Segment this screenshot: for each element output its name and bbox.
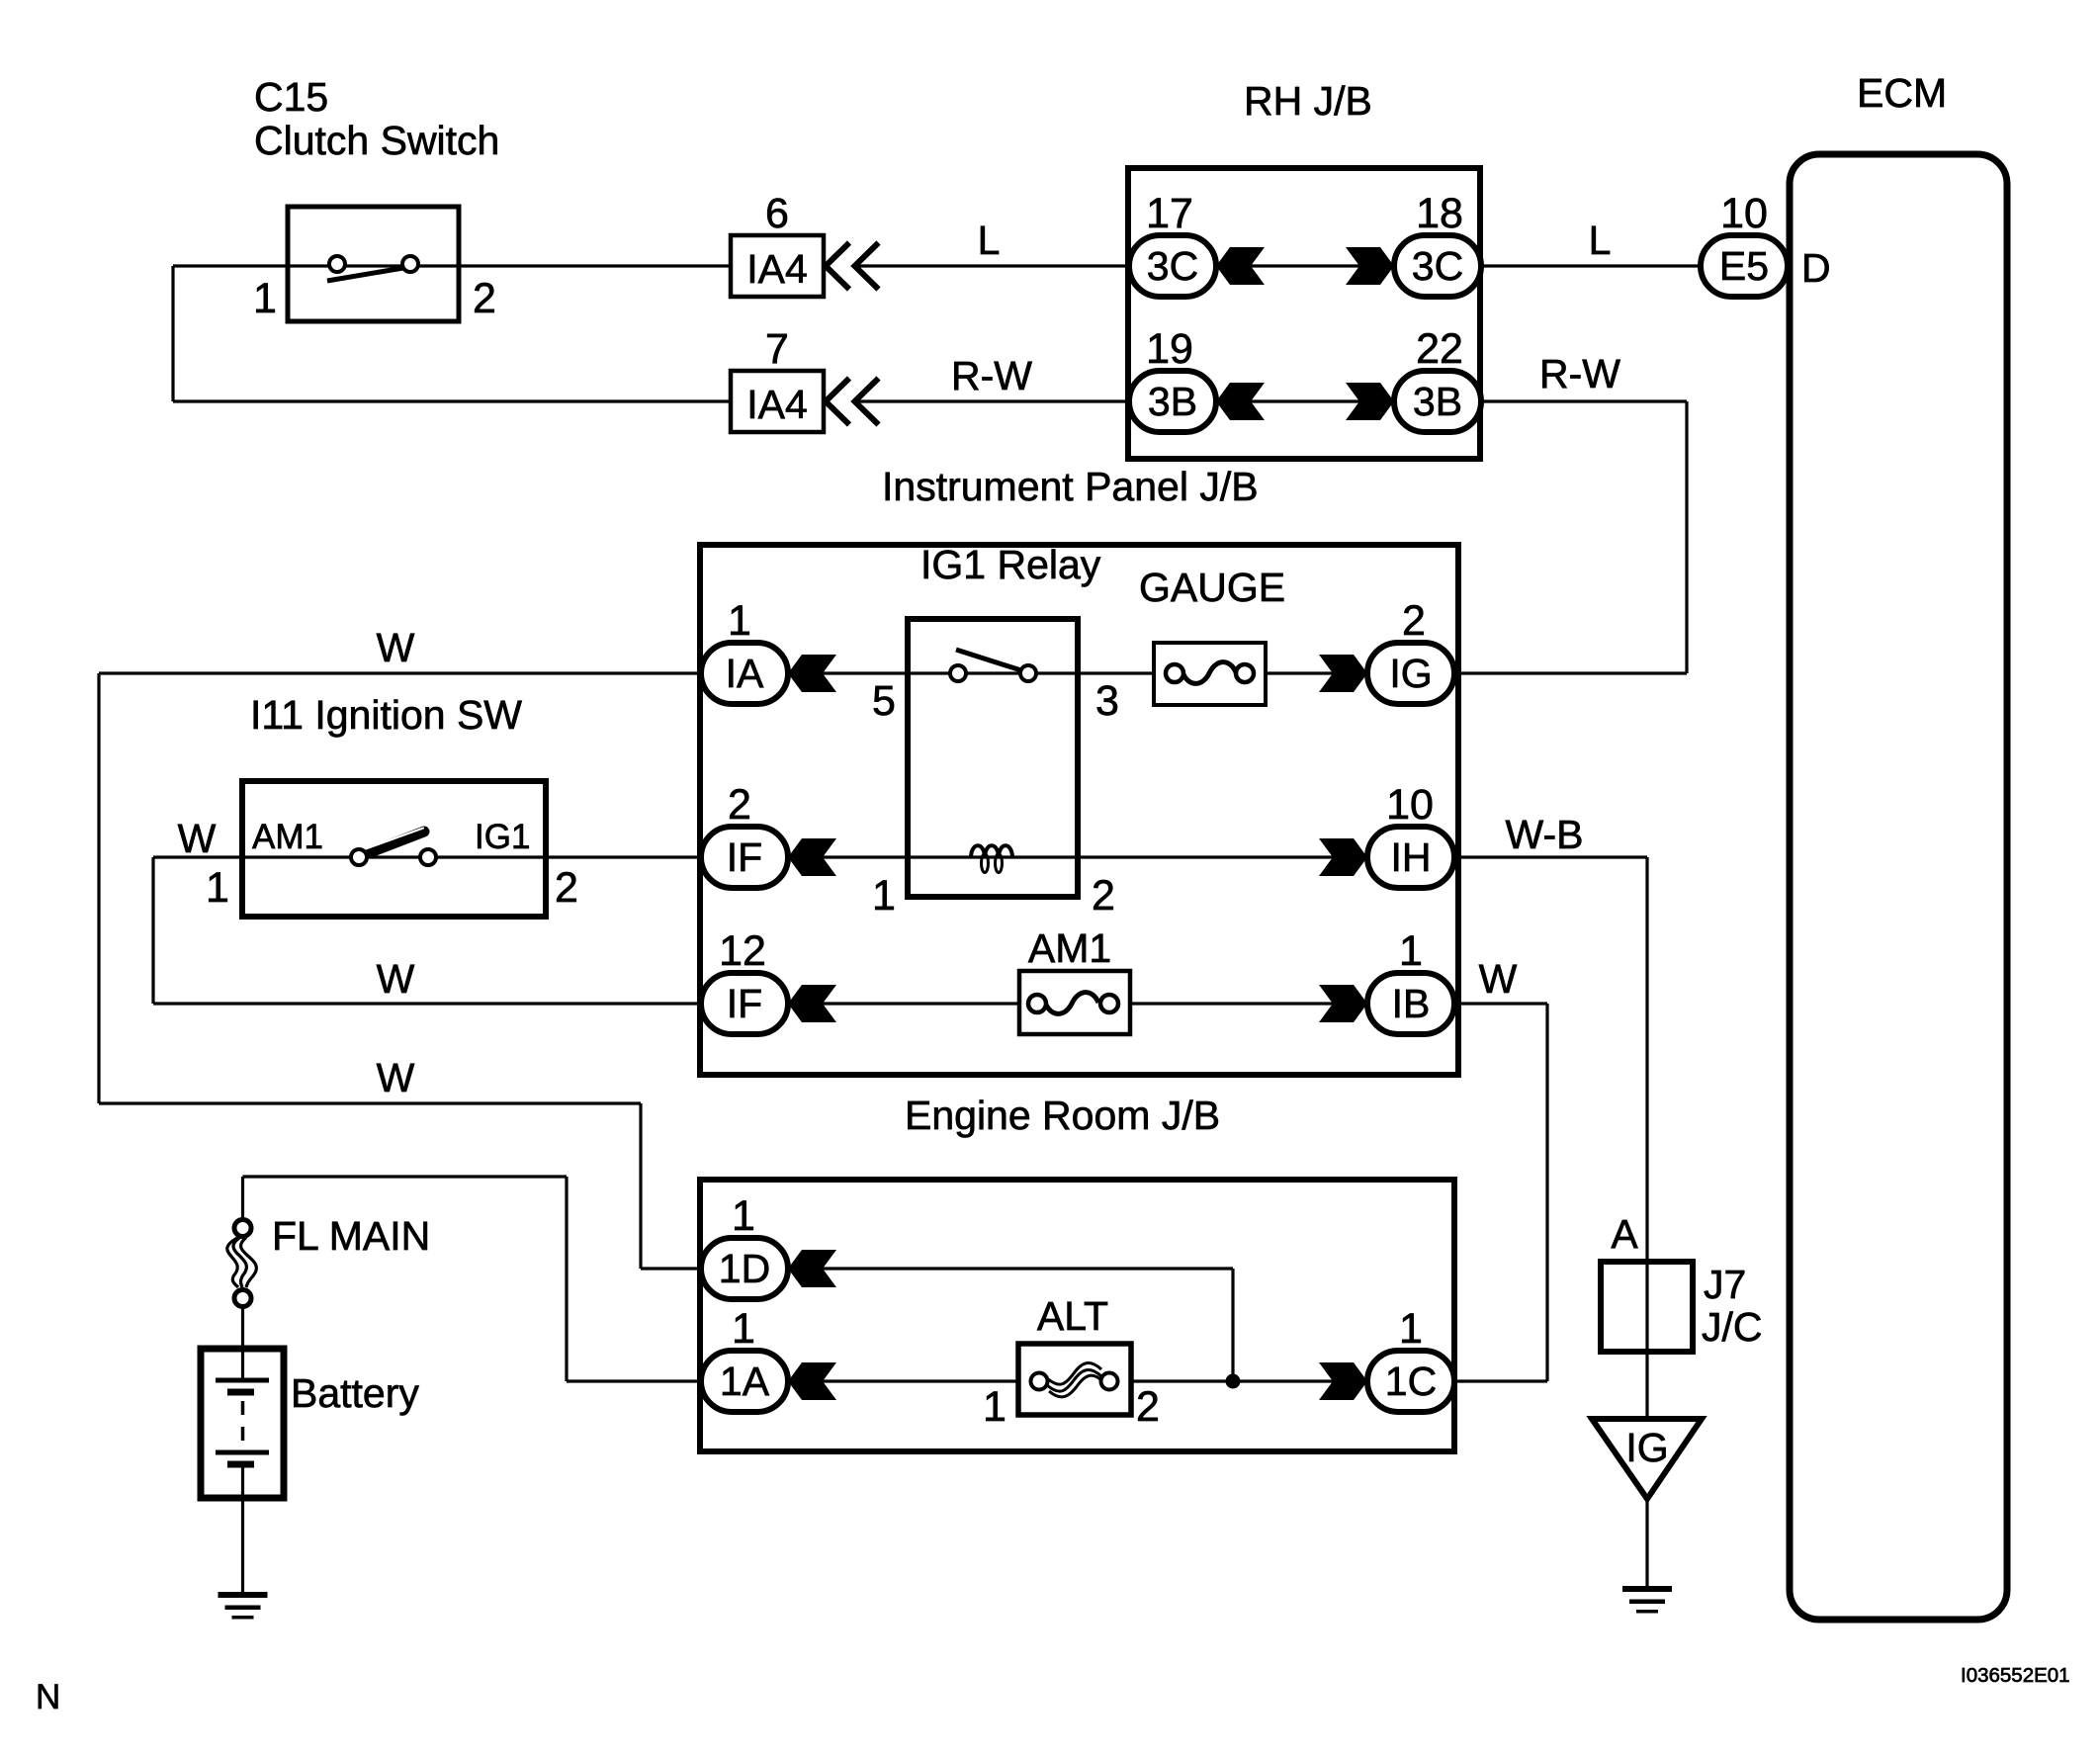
J7 J/C box [1601, 1262, 1693, 1352]
arrow left at IF-12 [788, 985, 836, 1022]
wire J7 to IG triangle [1645, 1352, 1648, 1419]
ALT fuse terminal 2 [1101, 1373, 1118, 1390]
svg-text:RH J/B: RH J/B [1244, 78, 1372, 124]
svg-text:3C: 3C [1147, 243, 1198, 289]
svg-text:18: 18 [1416, 190, 1463, 237]
wire relay pin2 to IH oval [1078, 855, 1367, 858]
svg-text:IG: IG [1389, 651, 1432, 696]
arrow right RH J/B row L [1346, 247, 1394, 285]
ignition switch I11 box [242, 781, 546, 917]
svg-text:L: L [978, 218, 1001, 263]
svg-text:1: 1 [732, 1192, 755, 1240]
arrow left at IF-2 [788, 838, 836, 876]
wire 3C-18 to ECM E5 (L) [1481, 264, 1703, 267]
svg-text:3B: 3B [1148, 379, 1197, 424]
battery box [201, 1349, 284, 1498]
IA4 connector box 6 [731, 235, 824, 297]
svg-text:IG1: IG1 [475, 818, 530, 856]
wire battery to ground [241, 1498, 244, 1593]
svg-text:IF: IF [727, 834, 762, 880]
junction dot [1226, 1374, 1241, 1389]
svg-text:17: 17 [1146, 190, 1193, 237]
svg-text:1: 1 [253, 275, 277, 322]
svg-text:1A: 1A [720, 1359, 770, 1404]
svg-text:3: 3 [1095, 677, 1119, 725]
svg-text:2: 2 [1092, 872, 1115, 920]
svg-text:ECM: ECM [1857, 70, 1947, 116]
svg-text:2: 2 [1136, 1383, 1160, 1431]
arrow right at 1C [1319, 1362, 1367, 1400]
svg-text:1: 1 [206, 864, 229, 912]
ignition switch contact AM1 [351, 849, 367, 865]
wire AM1 fuse to IB oval [1130, 1002, 1367, 1005]
IG1 relay box [908, 619, 1078, 897]
wire clutch switch pin2 to IA4-6 (L) [173, 264, 731, 267]
svg-text:IA4: IA4 [746, 382, 808, 427]
svg-text:AM1: AM1 [1028, 925, 1111, 971]
wire IF-2 oval to relay pin1 [788, 855, 908, 858]
svg-text:1: 1 [872, 872, 896, 920]
svg-text:IG1 Relay: IG1 Relay [920, 542, 1101, 587]
arrow right at IH [1319, 838, 1367, 876]
connector IG pin2 [1367, 643, 1454, 704]
svg-text:2: 2 [473, 275, 496, 322]
svg-text:R-W: R-W [951, 353, 1032, 398]
arrow left at 1A [788, 1362, 836, 1400]
wire FL MAIN to battery box [241, 1306, 244, 1349]
arrow left RH J/B row L [1216, 247, 1265, 285]
svg-text:IB: IB [1392, 981, 1431, 1026]
ignition switch blade [360, 832, 424, 856]
svg-text:A: A [1611, 1211, 1638, 1257]
svg-text:AM1: AM1 [252, 818, 323, 856]
svg-text:N: N [36, 1678, 60, 1716]
Instrument Panel J/B box [700, 545, 1458, 1075]
AM1 fuse box [1019, 971, 1130, 1034]
svg-text:12: 12 [719, 927, 766, 975]
J7 J/C internal wire [1645, 1262, 1648, 1352]
clutch switch C15 box [288, 207, 459, 321]
svg-text:1: 1 [983, 1383, 1006, 1431]
wire 3B-19 to 3B-22 inside RH J/B [1216, 399, 1394, 402]
arrow left at IA [788, 655, 836, 692]
wire GAUGE fuse to IG oval [1266, 671, 1367, 674]
wire 1A oval to ALT fuse [788, 1379, 1019, 1382]
svg-text:19: 19 [1146, 325, 1193, 373]
wire IG oval to R-W vertical [1454, 671, 1687, 674]
svg-text:2: 2 [728, 781, 751, 829]
FL MAIN fusible link [233, 1237, 246, 1288]
svg-text:W: W [377, 956, 415, 1002]
svg-text:3B: 3B [1413, 379, 1462, 424]
connector IH pin10 [1367, 827, 1454, 888]
connector IB pin1 [1367, 973, 1454, 1034]
svg-text:GAUGE: GAUGE [1139, 565, 1285, 610]
wire IF-12 oval to AM1 fuse [788, 1002, 1019, 1005]
wire battery top [241, 1177, 244, 1222]
connector IF pin2 [701, 827, 788, 888]
FL MAIN terminal bottom [234, 1290, 251, 1307]
wire 3C-17 to 3C-18 inside RH J/B [1216, 264, 1394, 267]
wire ignition switch row to IF-2 [153, 855, 701, 858]
ALT fusible link box [1018, 1344, 1131, 1415]
GAUGE fuse terminal 2 [1236, 664, 1254, 682]
wire relay coil row [908, 855, 1078, 858]
ALT fuse terminal 1 [1031, 1373, 1048, 1390]
AM1 fuse element [1045, 993, 1098, 1014]
svg-text:1: 1 [1399, 1305, 1423, 1353]
connector 3C pin17 [1129, 235, 1216, 297]
wire into 1A oval [567, 1379, 701, 1382]
wire W down to 1D row [639, 1103, 642, 1269]
svg-text:D: D [1801, 245, 1831, 291]
AM1 fuse terminal 2 [1100, 995, 1118, 1012]
svg-text:7: 7 [765, 325, 789, 373]
svg-text:Battery: Battery [291, 1370, 419, 1416]
svg-text:6: 6 [765, 190, 789, 237]
wire relay contact row [908, 671, 1078, 674]
svg-text:Engine Room J/B: Engine Room J/B [905, 1093, 1220, 1138]
svg-text:R-W: R-W [1539, 351, 1620, 396]
svg-text:FL MAIN: FL MAIN [272, 1213, 430, 1259]
battery ground [219, 1592, 268, 1620]
wire junction vertical [1231, 1269, 1234, 1381]
IG ground triangle [1592, 1419, 1702, 1499]
battery plate short top [227, 1389, 254, 1396]
connector 3C pin18 [1394, 235, 1481, 297]
Engine Room J/B box [700, 1180, 1454, 1451]
IG1 relay contact 5 [950, 665, 966, 681]
arrow left at 1D [788, 1250, 836, 1287]
wire into 1C oval right [1454, 1379, 1547, 1382]
wire into 1D oval [641, 1267, 701, 1270]
svg-text:3C: 3C [1412, 243, 1463, 289]
svg-text:1: 1 [1399, 927, 1423, 975]
wire IA4-7 to RH J/B 3B-19 (R-W) [858, 399, 1132, 402]
arrow right at IG [1319, 655, 1367, 692]
svg-text:L: L [1589, 218, 1612, 263]
ignition switch contact IG1 [420, 849, 436, 865]
wire ignition pin1 to IF-12 (W) [153, 1002, 701, 1005]
svg-text:5: 5 [872, 677, 896, 725]
wire battery horizontal [243, 1175, 568, 1178]
wire W left vertical [97, 673, 100, 1103]
svg-text:W: W [1479, 956, 1518, 1002]
svg-text:2: 2 [555, 864, 578, 912]
connector 3B pin19 [1129, 371, 1216, 432]
IG1 relay coil [971, 845, 1012, 858]
IG ground [1622, 1586, 1672, 1614]
svg-text:J/C: J/C [1702, 1304, 1763, 1350]
svg-text:IA4: IA4 [746, 246, 808, 292]
double chevron at IA4-6 [826, 243, 879, 290]
svg-text:J7: J7 [1704, 1262, 1746, 1307]
wire W down from IB [1545, 1004, 1548, 1381]
double chevron at IA4-7 [826, 379, 879, 425]
IA4 connector box 7 [731, 371, 824, 432]
connector IA pin1 [701, 643, 788, 704]
wire R-W down to IG fuse row [1685, 401, 1688, 673]
connector 1C pin1 [1367, 1351, 1454, 1412]
arrow right at IB [1319, 985, 1367, 1022]
ALT fusible link element [1047, 1369, 1101, 1391]
svg-text:Clutch Switch: Clutch Switch [254, 118, 499, 163]
svg-text:I11 Ignition SW: I11 Ignition SW [250, 692, 522, 738]
arrow left RH J/B row R-W [1216, 383, 1265, 420]
connector 1A pin1 [701, 1351, 788, 1412]
AM1 fuse terminal 1 [1028, 995, 1046, 1012]
arrow right RH J/B row R-W [1346, 383, 1394, 420]
RH J/B box [1128, 168, 1480, 459]
svg-text:10: 10 [1720, 190, 1768, 237]
wire IB oval right (W) [1454, 1002, 1547, 1005]
IG1 relay contact 3 [1020, 665, 1036, 681]
svg-text:I036552E01: I036552E01 [1961, 1664, 2070, 1687]
battery dashed center [241, 1401, 245, 1446]
IG1 relay blade [956, 650, 1024, 671]
svg-text:1C: 1C [1385, 1359, 1437, 1404]
svg-text:W: W [377, 625, 415, 670]
wire 3B-22 right (R-W) [1481, 399, 1687, 402]
wire ignition pin1 down [151, 857, 154, 1004]
svg-text:Instrument Panel J/B: Instrument Panel J/B [882, 464, 1259, 509]
wire battery feed down [565, 1177, 568, 1381]
wire IA oval to IG1 relay pin5 [788, 671, 908, 674]
battery plate short bottom [227, 1461, 254, 1468]
svg-text:W-B: W-B [1506, 812, 1584, 857]
wire battery internal bottom [241, 1464, 244, 1498]
wire 1D oval to junction [788, 1267, 1233, 1270]
battery plate long bottom [216, 1450, 269, 1455]
GAUGE fuse terminal 1 [1166, 664, 1183, 682]
svg-text:10: 10 [1386, 781, 1434, 829]
svg-text:IG: IG [1625, 1425, 1668, 1470]
wire IH oval right (W-B) [1459, 855, 1647, 858]
clutch switch contact 2 [402, 256, 418, 272]
connector 1D pin1 [701, 1238, 788, 1299]
wire clutch pin1 to IA4-7 (R-W) [173, 399, 731, 402]
wire W long horizontal [99, 1101, 641, 1104]
svg-text:22: 22 [1416, 325, 1463, 373]
svg-text:1: 1 [732, 1305, 755, 1353]
connector IF pin12 [701, 973, 788, 1034]
FL MAIN terminal top [234, 1220, 251, 1237]
svg-text:1D: 1D [719, 1246, 770, 1291]
wire W to IA oval [99, 671, 701, 674]
svg-text:IF: IF [727, 981, 762, 1026]
svg-text:ALT: ALT [1037, 1293, 1108, 1339]
wire W-B down to J7 [1645, 857, 1648, 1262]
svg-text:E5: E5 [1719, 243, 1769, 289]
connector 3B pin22 [1394, 371, 1481, 432]
ECM box [1790, 154, 2007, 1620]
wire IA4-6 to RH J/B 3C-17 (L) [858, 264, 1132, 267]
GAUGE fuse element [1182, 662, 1236, 684]
wire relay pin3 to GAUGE fuse [1078, 671, 1154, 674]
svg-text:IA: IA [726, 651, 764, 696]
svg-text:IH: IH [1391, 834, 1432, 880]
svg-text:2: 2 [1402, 597, 1426, 645]
svg-text:1: 1 [728, 597, 751, 645]
connector E5 pin10 [1701, 235, 1788, 297]
svg-text:C15: C15 [254, 74, 328, 120]
wire battery internal top [241, 1349, 244, 1380]
wire IG triangle to ground [1645, 1499, 1648, 1589]
GAUGE fuse box [1154, 643, 1266, 705]
wire ALT fuse to 1C oval [1131, 1379, 1367, 1382]
battery plate long top [216, 1378, 269, 1383]
clutch switch blade [327, 268, 403, 281]
svg-text:W: W [377, 1055, 415, 1100]
wire clutch switch pin1 down [171, 266, 174, 401]
svg-text:W: W [178, 816, 217, 861]
clutch switch contact 1 [329, 256, 345, 272]
